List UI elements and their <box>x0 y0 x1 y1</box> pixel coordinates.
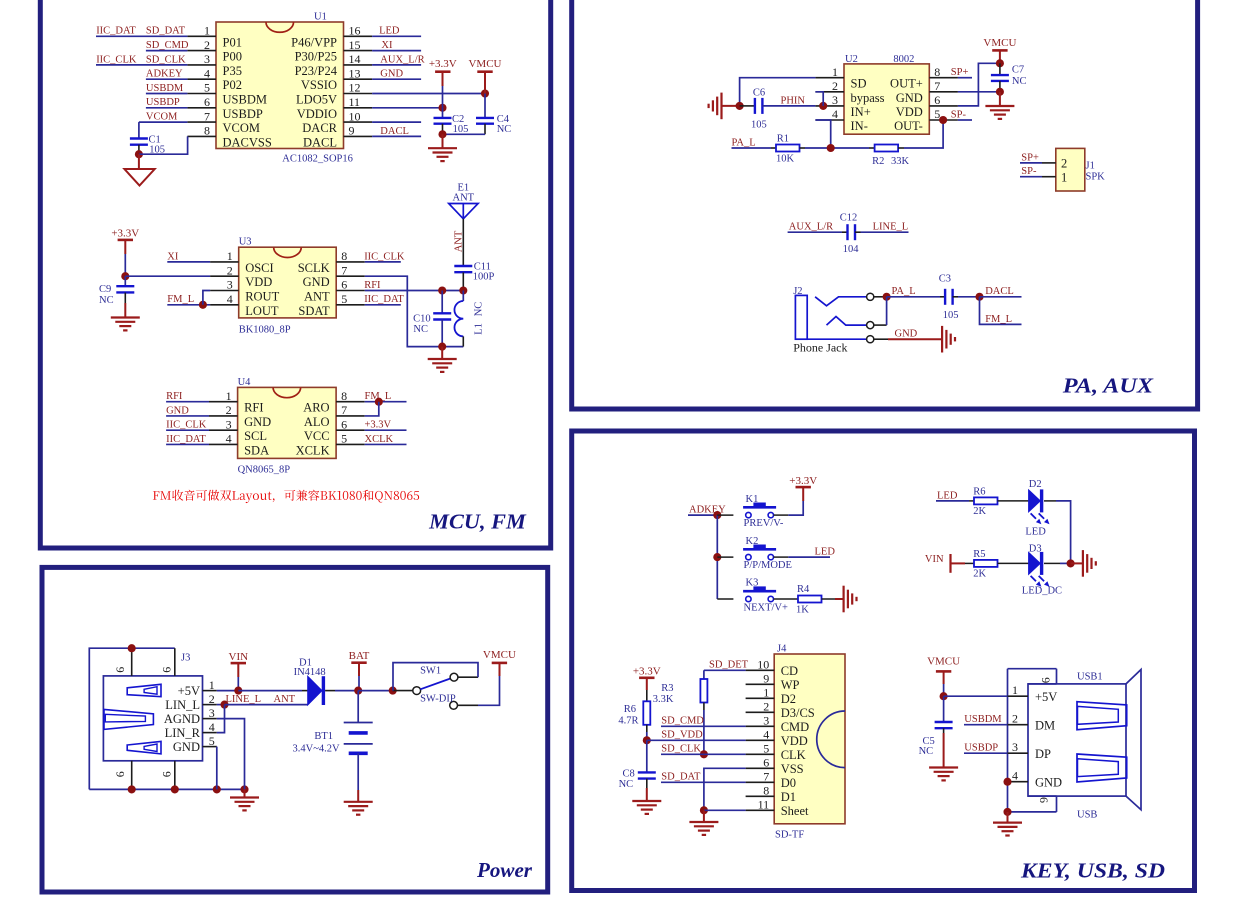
USB1 contact bottom <box>1077 754 1127 782</box>
VIN stub bar <box>949 554 951 573</box>
svg-text:105: 105 <box>453 124 469 135</box>
SW1 top contact circle <box>450 673 458 681</box>
wire to C8 <box>646 740 648 772</box>
U1 pin 6 stub <box>187 107 216 109</box>
wire GND from U1 pin13 <box>372 78 421 80</box>
svg-text:SD_CMD: SD_CMD <box>146 40 189 51</box>
wire D2 to ground corner <box>1044 500 1056 502</box>
svg-text:2: 2 <box>209 692 215 706</box>
svg-text:IN-: IN- <box>851 119 868 133</box>
wire ALO tie <box>365 402 379 416</box>
wire SD_CMD to J4 pin3 <box>661 725 746 727</box>
U4 pin 6 stub <box>336 429 365 431</box>
USB1 pin 4 stub <box>1008 781 1029 783</box>
note FM dual layout (chinese) <box>153 490 419 503</box>
svg-text:C6: C6 <box>753 87 765 98</box>
wire XI to U3 pin1 <box>167 261 210 263</box>
junction VIN <box>234 687 242 695</box>
svg-text:1: 1 <box>226 389 232 403</box>
J3 contact middle <box>104 709 153 729</box>
svg-text:2: 2 <box>763 700 769 714</box>
junction rail 4 <box>240 785 248 793</box>
wire DACL from U1 pin9 <box>372 135 421 137</box>
J3 body <box>103 676 202 761</box>
svg-text:4: 4 <box>763 728 769 742</box>
wire to K2 <box>717 556 733 558</box>
svg-text:USBDM: USBDM <box>146 83 184 94</box>
J2 tip contact <box>815 297 867 306</box>
svg-text:3: 3 <box>204 52 210 66</box>
U1 pin 10 stub <box>344 121 373 123</box>
svg-text:2: 2 <box>204 38 210 52</box>
wire R1 to R2 <box>800 147 806 149</box>
svg-text:C3: C3 <box>939 273 951 284</box>
svg-text:DP: DP <box>1035 747 1051 761</box>
svg-text:5: 5 <box>209 734 215 748</box>
svg-text:NC: NC <box>474 302 485 317</box>
svg-text:3: 3 <box>763 714 769 728</box>
power +3.3V (U3) <box>118 239 133 242</box>
svg-text:BT1: BT1 <box>314 731 333 742</box>
connector J4 SD-TF <box>774 654 845 824</box>
svg-text:P30/P25: P30/P25 <box>295 50 337 64</box>
inductor L1 <box>462 291 464 302</box>
U4 pin 7 stub <box>336 415 365 417</box>
svg-text:Phone Jack: Phone Jack <box>793 341 847 355</box>
svg-text:ALO: ALO <box>304 415 330 429</box>
IC U1 AC1082_SOP16 <box>216 22 344 149</box>
wire USBDM to USB DM <box>964 724 1008 726</box>
U1 pin 9 stub <box>344 135 373 137</box>
svg-text:OUT-: OUT- <box>894 119 923 133</box>
svg-text:VDD: VDD <box>896 105 923 119</box>
svg-text:AGND: AGND <box>164 712 200 726</box>
svg-text:D3: D3 <box>1029 543 1042 554</box>
svg-text:VDDIO: VDDIO <box>297 107 337 121</box>
wire ring tie to PA_L <box>874 324 887 326</box>
J2 ring contact <box>827 317 867 326</box>
J3 bottom rail <box>89 788 244 790</box>
svg-text:USBDP: USBDP <box>146 97 180 108</box>
svg-text:SD-TF: SD-TF <box>775 830 804 841</box>
U4 pin 1 stub <box>209 401 238 403</box>
wire to K3 <box>717 598 733 600</box>
junction BAT <box>354 687 362 695</box>
wire keys vertical <box>716 515 718 599</box>
svg-text:3: 3 <box>226 417 232 431</box>
svg-text:6: 6 <box>159 667 173 673</box>
wire RFI node down to C10 <box>441 291 443 314</box>
wire to C2 <box>442 108 444 118</box>
wire SW1 top loop <box>458 676 478 678</box>
svg-text:AUX_L/R: AUX_L/R <box>380 54 424 65</box>
svg-text:3: 3 <box>227 278 233 292</box>
svg-text:LED_DC: LED_DC <box>1022 586 1062 597</box>
svg-text:FM_L: FM_L <box>985 314 1012 325</box>
USB1 pin 1 stub <box>1008 695 1029 697</box>
capacitor C9 <box>124 276 126 286</box>
junction IN-/R1/R2 <box>827 144 835 152</box>
wire C12 to LINE_L <box>855 231 861 233</box>
svg-text:J3: J3 <box>181 653 190 664</box>
svg-text:Sheet: Sheet <box>781 804 809 818</box>
svg-text:6: 6 <box>341 278 347 292</box>
junction C10/GND rail <box>438 343 446 351</box>
power VMCU (U2) <box>992 49 1007 52</box>
U3 pin 2 stub <box>210 275 239 277</box>
svg-text:CD: CD <box>781 664 798 678</box>
J2 sleeve wire <box>807 338 866 340</box>
svg-text:SP-: SP- <box>1021 166 1037 177</box>
sideways ground (keys) <box>842 586 844 613</box>
svg-text:C7: C7 <box>1012 65 1024 76</box>
wire C7 bottom <box>999 81 1001 92</box>
svg-text:4: 4 <box>209 720 215 734</box>
J3 pin 1 stub <box>203 690 217 692</box>
junction D2/D3 ground <box>1067 559 1075 567</box>
junction SW1 common <box>389 687 397 695</box>
capacitor C3 <box>944 289 946 305</box>
wire K1 to +3.3V <box>774 514 789 516</box>
wire LED to R6 <box>936 500 969 502</box>
svg-text:VCC: VCC <box>304 429 330 443</box>
ground under BT1 <box>344 801 373 803</box>
J2 contact circle sleeve <box>867 336 874 343</box>
sideways ground at J2 <box>941 326 943 353</box>
diode D1 IN4148 <box>308 676 322 705</box>
ground under J3 rail <box>244 789 246 797</box>
USB1 horn <box>1126 670 1141 810</box>
U2 pin 4 stub <box>815 119 844 121</box>
svg-text:4.7R: 4.7R <box>618 715 638 726</box>
svg-text:IIC_CLK: IIC_CLK <box>166 420 207 431</box>
wire sleeve to GND <box>874 338 888 340</box>
svg-text:RFI: RFI <box>244 401 263 415</box>
svg-text:8: 8 <box>934 65 940 79</box>
svg-text:LDO5V: LDO5V <box>296 93 337 107</box>
wire R4 to ground <box>822 598 836 600</box>
svg-text:USBDM: USBDM <box>964 714 1002 725</box>
wire SP- to J1 pin1 <box>1020 176 1042 178</box>
svg-text:CLK: CLK <box>781 748 806 762</box>
wire R3 to SD_CLK <box>703 703 705 711</box>
svg-text:11: 11 <box>349 95 361 109</box>
svg-text:8: 8 <box>204 124 210 138</box>
J4 pin 1 stub <box>746 697 775 699</box>
SW1 bottom contact circle <box>450 701 458 709</box>
svg-text:7: 7 <box>934 79 940 93</box>
svg-text:R4: R4 <box>797 584 810 595</box>
wire U2 GND pin7 to C7 node <box>958 91 1000 93</box>
power VMCU (U1) <box>477 70 492 73</box>
svg-text:SD_VDD: SD_VDD <box>661 730 703 741</box>
J4 pin 5 stub <box>746 753 775 755</box>
svg-text:R2: R2 <box>872 156 884 167</box>
resistor R4 <box>798 596 822 603</box>
svg-text:D3/CS: D3/CS <box>781 706 815 720</box>
svg-text:P02: P02 <box>223 78 242 92</box>
wire FM_L to U3 pin4 <box>167 304 210 306</box>
resistor R1 <box>776 145 800 152</box>
wire SP- from U2 pin5 <box>958 119 972 121</box>
svg-text:ANT: ANT <box>274 694 296 705</box>
svg-text:104: 104 <box>843 244 860 255</box>
wire ADKEY <box>688 514 717 516</box>
J3 shield stub bottom-left <box>131 761 133 790</box>
svg-text:NC: NC <box>99 295 114 306</box>
wire PHIN C6 to U2 IN+ <box>762 105 815 107</box>
wire VMCU to C4 <box>484 94 486 118</box>
svg-text:1: 1 <box>1012 683 1018 697</box>
svg-text:DACL: DACL <box>303 135 337 149</box>
svg-text:XI: XI <box>381 40 393 51</box>
wire R5 to D3 <box>998 562 1029 564</box>
USB1 pin 3 stub <box>1008 752 1029 754</box>
svg-text:U4: U4 <box>238 377 252 388</box>
section frame Power <box>42 567 548 892</box>
svg-text:D1: D1 <box>781 790 796 804</box>
svg-text:1: 1 <box>763 686 769 700</box>
svg-text:SD: SD <box>851 77 867 91</box>
J3 pin 2 stub <box>203 704 217 706</box>
svg-text:ADKEY: ADKEY <box>146 69 183 80</box>
svg-text:OUT+: OUT+ <box>890 77 923 91</box>
svg-text:SD_DAT: SD_DAT <box>146 26 186 37</box>
svg-text:13: 13 <box>349 66 361 80</box>
svg-text:3: 3 <box>832 93 838 107</box>
svg-text:C12: C12 <box>840 212 858 223</box>
capacitor C11 <box>454 265 472 267</box>
svg-text:DACL: DACL <box>985 286 1014 297</box>
svg-text:7: 7 <box>763 770 769 784</box>
svg-text:7: 7 <box>204 109 210 123</box>
U1 pin 3 stub <box>187 64 216 66</box>
svg-text:XCLK: XCLK <box>296 443 330 457</box>
wire USBDM to U1 pin5 <box>146 93 188 95</box>
ground under C2 <box>442 134 444 148</box>
svg-text:LIN_R: LIN_R <box>165 726 201 740</box>
svg-text:2: 2 <box>226 403 232 417</box>
wire U2 IN- pin4 down <box>815 120 830 148</box>
ground under C10 <box>441 347 443 359</box>
wire SD_CMD to U1 pin2 <box>146 50 188 52</box>
svg-text:C8: C8 <box>623 769 635 780</box>
connector USB1 body <box>1028 684 1126 796</box>
junction USB shield <box>1003 808 1011 816</box>
junction DACL/FM_L <box>975 293 983 301</box>
svg-text:1: 1 <box>832 65 838 79</box>
svg-text:2K: 2K <box>973 569 986 580</box>
J3 pin 3 stub <box>203 718 217 720</box>
svg-text:3: 3 <box>209 706 215 720</box>
U4 pin 8 stub <box>336 401 365 403</box>
svg-text:10: 10 <box>349 109 361 123</box>
svg-text:Power: Power <box>476 858 533 882</box>
wire XCLK from U4 pin5 <box>365 443 407 445</box>
svg-text:RFI: RFI <box>364 280 381 291</box>
svg-text:MCU, FM: MCU, FM <box>428 510 527 534</box>
svg-text:VDD: VDD <box>781 734 808 748</box>
power VMCU (SW1) <box>492 662 507 665</box>
capacitor C10 <box>433 312 451 314</box>
junction RFI/C11 <box>459 286 467 294</box>
svg-text:NEXT/V+: NEXT/V+ <box>744 602 788 613</box>
USB1 contact top <box>1077 702 1127 730</box>
ground under C8 <box>646 779 648 788</box>
svg-text:VDD: VDD <box>245 275 272 289</box>
junction LINE_L <box>217 704 225 706</box>
svg-text:VIN: VIN <box>925 554 944 565</box>
svg-text:IIC_DAT: IIC_DAT <box>96 26 136 37</box>
svg-text:VCOM: VCOM <box>146 112 178 123</box>
svg-text:VIN: VIN <box>229 651 249 663</box>
section frame MCU,FM <box>40 0 550 548</box>
U1 pin 5 stub <box>187 93 216 95</box>
antenna E1 symbol <box>449 204 478 219</box>
wire VDDIO U1 pin11 to +3.3V <box>372 107 442 109</box>
svg-text:2K: 2K <box>973 506 986 517</box>
J4 pin 10 stub <box>746 669 775 671</box>
svg-text:1: 1 <box>204 24 210 38</box>
svg-text:2: 2 <box>832 79 838 93</box>
wire IIC_DAT to U4 pin 4 <box>166 443 209 445</box>
capacitor C5 <box>943 696 945 722</box>
sideways ground (LEDs) <box>1082 550 1084 577</box>
svg-text:SCL: SCL <box>244 429 267 443</box>
U1 pin 16 stub <box>344 35 373 37</box>
J3 outer shell wire <box>89 648 175 789</box>
svg-text:K3: K3 <box>746 578 759 589</box>
wire IIC_CLK to U4 pin 3 <box>166 429 209 431</box>
sideways ground at C6 <box>720 93 722 120</box>
U1 pin 8 stub <box>187 135 216 137</box>
battery BT1 <box>357 691 359 723</box>
wire antenna to C11 <box>462 219 464 266</box>
svg-text:9: 9 <box>763 672 769 686</box>
U1 pin 14 stub <box>344 64 373 66</box>
junction Sheet/VSS <box>700 806 708 814</box>
svg-text:SW1: SW1 <box>420 666 441 677</box>
svg-text:USBDM: USBDM <box>223 93 267 107</box>
svg-text:16: 16 <box>349 24 361 38</box>
wire SP+ from U2 pin8 <box>958 77 972 79</box>
resistor R6 (2K) <box>974 497 998 504</box>
resistor R6 (4.7R) <box>643 701 650 725</box>
svg-text:SPK: SPK <box>1086 171 1106 182</box>
wire VIN to R5 <box>951 562 966 564</box>
svg-text:+5V: +5V <box>178 684 200 698</box>
svg-text:LINE_L: LINE_L <box>873 222 909 233</box>
svg-text:9: 9 <box>349 124 355 138</box>
svg-text:E1: E1 <box>457 182 469 193</box>
junction rail 1 <box>128 785 136 793</box>
resistor R3 <box>703 670 705 679</box>
pushbutton K3 <box>746 596 751 601</box>
svg-text:+3.3V: +3.3V <box>429 58 457 70</box>
wire LED from U1 pin16 <box>372 35 421 37</box>
wire tip to PA_L junction <box>874 296 887 298</box>
svg-text:GND: GND <box>380 69 403 80</box>
U1 pin 1 stub <box>187 35 216 37</box>
svg-text:P46/VPP: P46/VPP <box>291 35 337 49</box>
junction ADKEY/K1 <box>713 511 721 519</box>
svg-text:1: 1 <box>227 249 233 263</box>
svg-text:RFI: RFI <box>166 391 183 402</box>
wire SD_CLK to J4 pin5 <box>661 753 746 755</box>
wire C1 bottom <box>138 145 140 155</box>
svg-text:6: 6 <box>1037 797 1051 803</box>
U1 pin 12 stub <box>344 93 373 95</box>
wire AUX_L/R to C12 <box>788 231 842 233</box>
svg-text:P/P/MODE: P/P/MODE <box>744 560 792 571</box>
wire XI from U1 pin15 <box>372 50 421 52</box>
svg-text:DACL: DACL <box>380 126 409 137</box>
svg-text:4: 4 <box>226 432 232 446</box>
svg-text:WP: WP <box>781 678 800 692</box>
wire LINE_L / ANT <box>225 704 308 706</box>
USB1 pin 2 stub <box>1008 724 1029 726</box>
junction K2 branch <box>713 553 721 561</box>
svg-text:LOUT: LOUT <box>245 304 279 318</box>
U4 pin 5 stub <box>336 443 365 445</box>
junction C2 bottom <box>438 130 446 138</box>
junction J3 shell top <box>128 644 136 652</box>
junction VMCU/C5 <box>940 692 948 700</box>
svg-text:DM: DM <box>1035 718 1055 732</box>
svg-text:5: 5 <box>341 292 347 306</box>
pushbutton K2 <box>746 554 751 559</box>
wire Sheet to J4 pin11 <box>704 809 746 811</box>
svg-text:14: 14 <box>349 52 361 66</box>
svg-text:6: 6 <box>113 667 127 673</box>
wire RFI from U3 pin6 ANT <box>365 290 464 292</box>
ground under C5 <box>943 728 945 733</box>
wire K2 to LED <box>774 556 789 558</box>
svg-text:5: 5 <box>763 742 769 756</box>
U1 pin 13 stub <box>344 78 373 80</box>
svg-text:2: 2 <box>1012 712 1018 726</box>
svg-text:XI: XI <box>167 251 179 262</box>
svg-text:D0: D0 <box>781 776 796 790</box>
J4 pin 8 stub <box>746 795 775 797</box>
SW1 lever <box>420 679 450 690</box>
svg-text:+3.3V: +3.3V <box>111 227 139 239</box>
svg-text:PA, AUX: PA, AUX <box>1062 374 1154 398</box>
svg-text:P01: P01 <box>223 35 242 49</box>
svg-text:K2: K2 <box>746 536 759 547</box>
junction RFI/C10 <box>438 286 446 294</box>
J4 pin 9 stub <box>746 683 775 685</box>
U4 pin 3 stub <box>209 429 238 431</box>
svg-text:SD_DAT: SD_DAT <box>661 772 701 783</box>
svg-text:J4: J4 <box>777 644 787 655</box>
svg-text:GND: GND <box>896 91 923 105</box>
svg-text:USBDP: USBDP <box>964 742 998 753</box>
wire GND pin5 down to rail <box>216 747 218 790</box>
section frame PA,AUX <box>572 0 1198 409</box>
junction rail 2 <box>171 785 179 793</box>
U3 pin 1 stub <box>210 261 239 263</box>
wire U2 VDD pin6 to VMCU <box>958 63 1000 106</box>
svg-text:GND: GND <box>895 329 918 340</box>
capacitor C2 <box>434 117 452 119</box>
svg-text:VMCU: VMCU <box>468 58 501 70</box>
svg-text:PA_L: PA_L <box>732 137 756 148</box>
power +3.3V (keys) <box>796 486 811 489</box>
svg-text:BAT: BAT <box>349 650 370 662</box>
power VMCU (USB) <box>936 670 951 673</box>
wire ROUT tie <box>203 291 210 305</box>
